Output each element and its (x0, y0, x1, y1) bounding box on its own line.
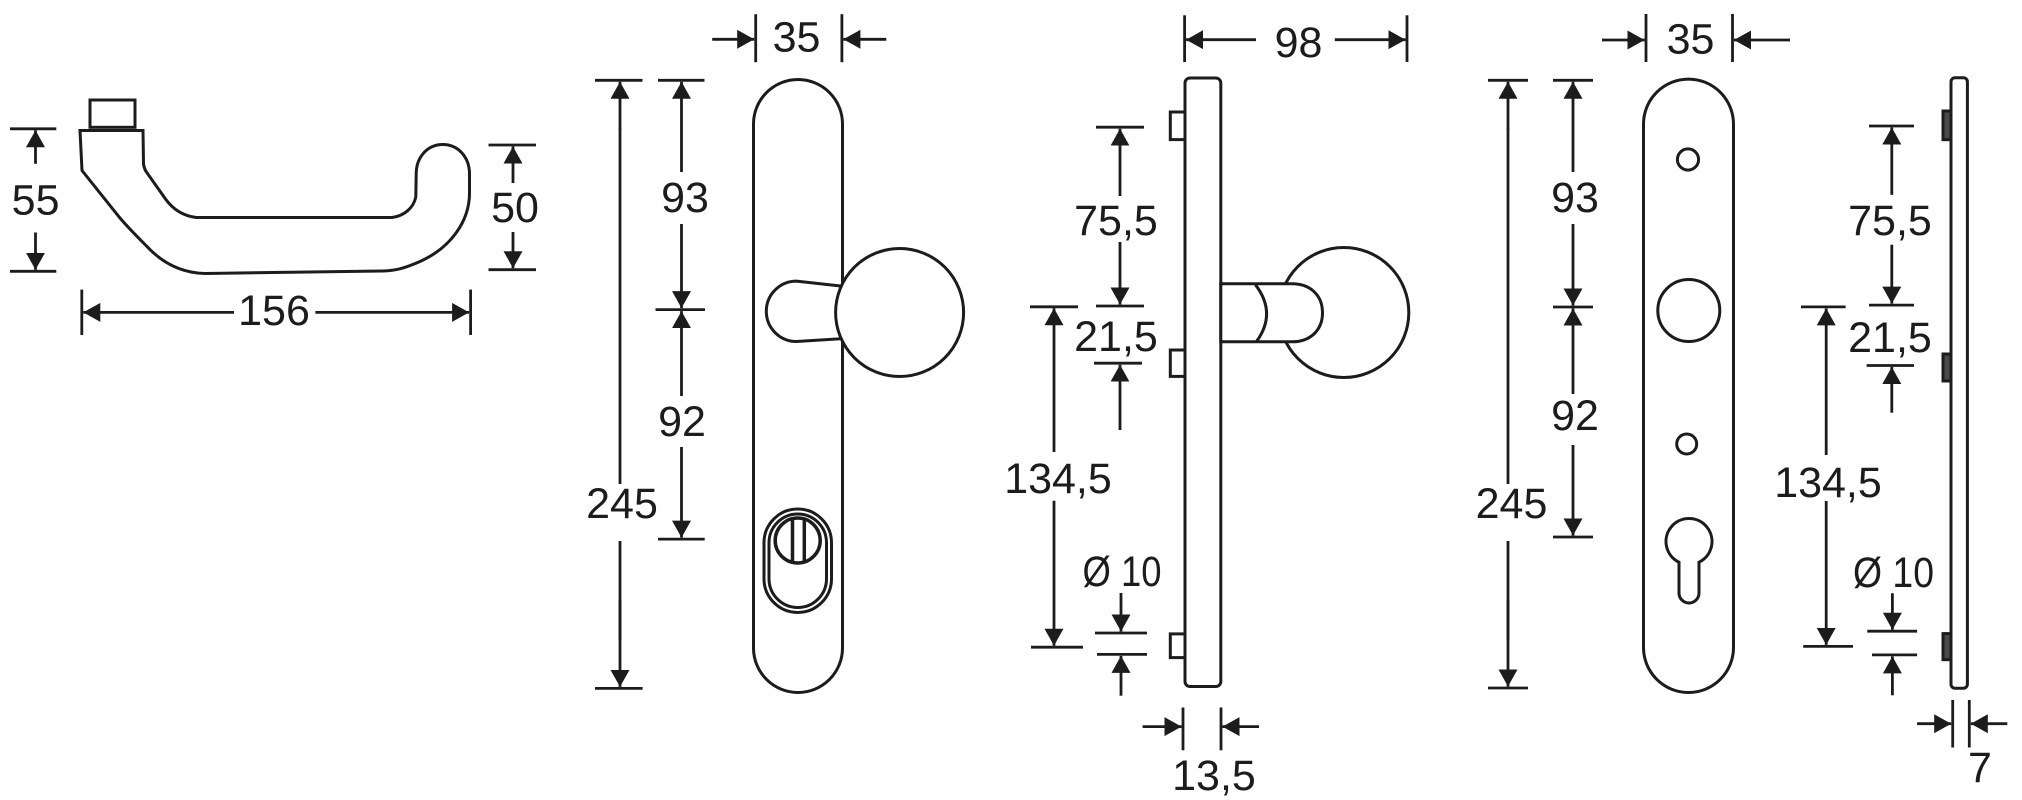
knob ball 3 (1279, 248, 1409, 378)
svg-text:156: 156 (238, 287, 310, 335)
dim diameter 10 (fig3) (1095, 593, 1147, 696)
dim 98 (1185, 15, 1407, 62)
dim 21,5 (fig3) (1094, 363, 1142, 430)
svg-text:93: 93 (661, 174, 709, 222)
svg-text:245: 245 (1476, 480, 1548, 528)
svg-text:75,5: 75,5 (1074, 197, 1158, 245)
plate 3 side profile (1185, 78, 1221, 687)
spindle square (90, 100, 135, 127)
dim 55 (10, 129, 56, 271)
dim 75,5 (fig3) (1096, 127, 1144, 306)
dim 134,5 (fig3) (1030, 307, 1083, 647)
fixing pin 3 (fig5) (1943, 634, 1953, 660)
knob ball 2 (836, 249, 964, 377)
svg-text:92: 92 (658, 398, 706, 446)
svg-text:35: 35 (773, 14, 821, 62)
svg-text:93: 93 (1551, 174, 1599, 222)
svg-text:13,5: 13,5 (1172, 752, 1256, 800)
thumbturn slot lines (791, 520, 795, 562)
thumbturn circle (775, 518, 820, 563)
dim 93 (fig2) (656, 80, 706, 309)
plate 4 (1644, 79, 1734, 692)
plate 2 (754, 80, 843, 693)
svg-text:Ø 10: Ø 10 (1083, 548, 1162, 596)
handle outline (80, 131, 470, 274)
dim 7 (1917, 700, 2007, 748)
svg-text:50: 50 (491, 184, 539, 232)
dim 245 (fig4) (1488, 80, 1528, 688)
screw hole bottom (1677, 434, 1697, 454)
svg-text:7: 7 (1968, 744, 1992, 792)
knob neck 3 (1221, 284, 1323, 342)
handle hole (1658, 280, 1720, 342)
svg-text:21,5: 21,5 (1074, 313, 1158, 361)
dim 50 (489, 145, 537, 270)
dim 93 (fig4) (1553, 80, 1593, 307)
dim 13,5 (1143, 708, 1259, 751)
plate 5 side profile (1951, 78, 1967, 688)
fixing pin 1 (fig3) (1170, 112, 1185, 140)
dim diameter 10 (fig5) (1867, 593, 1917, 695)
dim 92 (fig4) (1553, 309, 1593, 538)
svg-text:98: 98 (1275, 19, 1323, 67)
dim 75,5 (fig5) (1869, 126, 1914, 305)
dim 156 (82, 290, 471, 335)
svg-text:21,5: 21,5 (1848, 314, 1932, 362)
svg-text:35: 35 (1667, 16, 1715, 64)
FIGURE 1 : lever handle side view (80, 100, 470, 274)
screw hole top (1677, 149, 1698, 170)
fixing pin 1 (fig5) (1943, 111, 1953, 140)
neck flare arc (1256, 285, 1267, 341)
dim 35 (fig2) (712, 14, 886, 62)
dim 245 (fig2) (595, 80, 643, 688)
dim 21,5 (fig5) (1867, 366, 1914, 413)
dim 92 (fig2) (658, 311, 705, 539)
fixing pin 2 (fig3) (1170, 350, 1185, 376)
dim 134,5 (fig5) (1801, 307, 1853, 647)
svg-text:Ø 10: Ø 10 (1853, 549, 1934, 597)
svg-text:134,5: 134,5 (1774, 459, 1882, 507)
dim 35 (fig4) (1602, 14, 1790, 62)
knob neck 2 (766, 281, 845, 341)
fixing pin 3 (fig3) (1170, 634, 1185, 658)
cylinder rosette inner oval (769, 514, 827, 608)
svg-text:75,5: 75,5 (1848, 197, 1932, 245)
svg-text:245: 245 (586, 480, 658, 528)
fixing pin 2 (fig5) (1943, 354, 1953, 381)
svg-text:134,5: 134,5 (1004, 455, 1112, 503)
svg-text:92: 92 (1551, 392, 1599, 440)
euro profile cylinder hole (1666, 518, 1712, 603)
svg-text:55: 55 (12, 177, 60, 225)
cylinder rosette outer oval (764, 509, 832, 613)
